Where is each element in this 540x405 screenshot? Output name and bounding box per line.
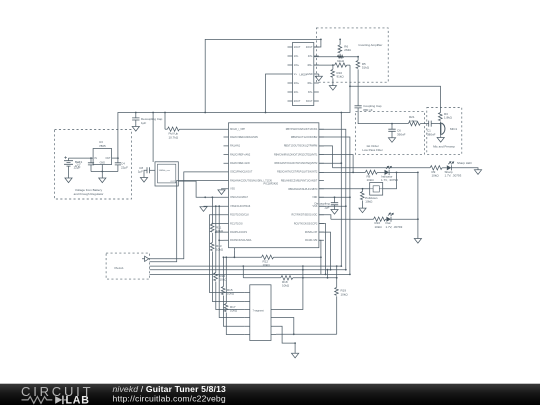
capacitor Decoupling Cap 1uF xyxy=(132,113,163,127)
wire VDD row with decoupling xyxy=(319,196,350,198)
svg-text:10kΩ: 10kΩ xyxy=(216,229,224,233)
wire x=302 link xyxy=(302,266,304,278)
svg-text:RB6/PGC/T1LOOK/KBI2: RB6/PGC/T1LOOK/KBI2 xyxy=(291,136,318,139)
svg-text:3IN+: 3IN+ xyxy=(307,82,313,85)
wire RC7 to flat row xyxy=(319,215,331,219)
svg-text:OUT: OUT xyxy=(170,181,175,183)
wire staircase V6 with resistor R17 xyxy=(224,257,245,334)
wire 7seg pin to ground xyxy=(276,326,295,353)
wire bus link at x=327 xyxy=(327,270,329,278)
resistor Pulldown 10k xyxy=(361,188,378,208)
svg-text:RB2/CANTX/CST/P1P/1LKTSIX/INT2: RB2/CANTX/CST/P1P/1LKTSIX/INT2 xyxy=(277,171,318,174)
wire Flat LED row xyxy=(331,218,374,220)
svg-text:5.6kΩ: 5.6kΩ xyxy=(409,119,418,123)
svg-text:Piezo1: Piezo1 xyxy=(115,266,125,270)
dashed box Voltage from Battery and through Regulator xyxy=(55,130,132,200)
wire 7seg bottom row xyxy=(276,333,337,335)
ground under C6 xyxy=(388,138,395,143)
wire piezo pin4 bus xyxy=(150,269,346,271)
svg-text:RB5/T1OOUT/SCK/LQTPWRM: RB5/T1OOUT/SCK/LQTPWRM xyxy=(284,145,317,148)
ground under C8 xyxy=(140,178,147,183)
wire oscillator supply drop xyxy=(152,113,154,163)
wire staircase V2 with resistors xyxy=(210,196,244,301)
wire RC1 route down xyxy=(319,224,326,275)
wire MCU bottom stub xyxy=(233,251,235,258)
resistor R3 1.8k xyxy=(439,112,453,124)
ground under regulator xyxy=(99,178,106,183)
svg-text:1.8kΩ: 1.8kΩ xyxy=(444,116,453,120)
svg-text:380nF: 380nF xyxy=(427,132,436,136)
wire bus vertical C from RB6 xyxy=(319,137,350,274)
wire Indicator LED row xyxy=(319,171,365,173)
led Indicator xyxy=(381,166,418,182)
ground under pulldown xyxy=(359,208,366,213)
op-amp U1 LM324 package xyxy=(288,43,319,106)
svg-text:Low Pass Filter: Low Pass Filter xyxy=(362,148,383,152)
svg-text:RB7/PGD7/AN/KLI3/T13CKI4: RB7/PGD7/AN/KLI3/T13CKI4 xyxy=(286,128,318,131)
svg-text:RA2/CVREF+/AN2: RA2/CVREF+/AN2 xyxy=(230,153,251,156)
svg-text:OSC2/RA6/CLKOUT: OSC2/RA6/CLKOUT xyxy=(230,171,253,174)
ground under mic xyxy=(437,135,444,142)
wire Sharp LED row xyxy=(333,167,431,169)
wire LED cathode drop xyxy=(417,172,419,238)
svg-text:MIC1: MIC1 xyxy=(450,127,457,131)
ground at op-amp GND pin xyxy=(315,74,322,81)
node junction C3 top xyxy=(90,157,92,159)
wire battery to regulator input xyxy=(69,157,94,159)
svg-text:RC3/SCK/SCL/SDA: RC3/SCK/SCL/SDA xyxy=(230,239,252,242)
svg-text:10kΩ: 10kΩ xyxy=(432,174,440,178)
wire non-inverting row xyxy=(314,64,333,66)
wire staircase V3 with resistor R14 xyxy=(214,205,245,309)
node rail junctions xyxy=(135,112,137,114)
wire piezo pin1 to MCU RA4 xyxy=(150,172,224,259)
ground 7segment common xyxy=(292,353,299,358)
svg-text:LM324: LM324 xyxy=(300,73,308,76)
resistor R6 2M (feedback) xyxy=(338,39,351,56)
capacitor Coupling Cap 880nF xyxy=(355,104,382,112)
svg-text:RC7/RX/DT/SDO1/UOC: RC7/RX/DT/SDO1/UOC xyxy=(292,214,318,217)
microcontroller U4 PIC18F2420 xyxy=(224,123,324,251)
svg-text:GND: GND xyxy=(307,73,313,76)
wire bus vertical B from RB7 xyxy=(319,129,346,270)
svg-text:10kΩ: 10kΩ xyxy=(216,248,224,252)
wire cap bottoms to regulator gnd xyxy=(91,165,118,179)
svg-text:RB3/CANTX/CLDK/T1P/1SICTEQVMT2: RB3/CANTX/CLDK/T1P/1SICTEQVMT2 xyxy=(275,162,318,165)
svg-text:880 nF: 880 nF xyxy=(363,108,373,112)
wire piezo pin5 bus xyxy=(150,273,350,275)
dashed box Piezo1 xyxy=(106,253,150,279)
svg-text:VDD: VDD xyxy=(312,196,317,199)
svg-text:MCLR_/_VPP: MCLR_/_VPP xyxy=(230,128,245,131)
ground under LED drop xyxy=(414,239,421,244)
wire 7seg pin to bottom row xyxy=(276,318,294,335)
voltage regulator U3 7805 xyxy=(93,140,112,165)
svg-text:OUT: OUT xyxy=(105,157,111,160)
svg-text:7-segment: 7-segment xyxy=(253,310,265,313)
wire RC2 route down xyxy=(319,232,331,270)
svg-text:2MΩ: 2MΩ xyxy=(344,48,351,52)
svg-text:22µF: 22µF xyxy=(121,165,128,169)
wire feedback run to left column xyxy=(205,39,321,112)
svg-text:RC2/P1A/CCP1: RC2/P1A/CCP1 xyxy=(230,231,248,234)
wire piezo pin2 to MCU RA5 xyxy=(150,181,224,262)
svg-text:1µF: 1µF xyxy=(138,170,143,174)
ground under decoupling cap xyxy=(132,127,139,132)
svg-text:GND: GND xyxy=(100,161,106,164)
resistor R12 10k xyxy=(262,255,274,267)
svg-text:RB4/CANRX/LDKIO/T1P/1DCTEQVMT1: RB4/CANRX/LDKIO/T1P/1DCTEQVMT1 xyxy=(274,153,318,156)
svg-text:10kΩ: 10kΩ xyxy=(367,178,375,182)
wire RB3 tap xyxy=(319,162,341,164)
footer bar xyxy=(0,384,540,405)
svg-text:RA0/CVREF/AN0/ULPWU: RA0/CVREF/AN0/ULPWU xyxy=(230,136,258,139)
svg-text:91kΩ: 91kΩ xyxy=(337,75,345,79)
svg-text:10.7kΩ: 10.7kΩ xyxy=(169,136,179,140)
dashed box Inverting Amplifier xyxy=(316,28,388,82)
svg-text:VSS: VSS xyxy=(230,188,235,191)
svg-text:10kΩ: 10kΩ xyxy=(230,309,238,313)
svg-text:2IN+: 2IN+ xyxy=(294,82,300,85)
svg-text:16MHz_osc: 16MHz_osc xyxy=(159,170,171,172)
led Sharp xyxy=(445,161,473,178)
svg-text:10kΩ: 10kΩ xyxy=(282,284,290,288)
svg-text:2IN-: 2IN- xyxy=(294,91,299,94)
microphone MIC1 xyxy=(431,123,457,135)
piezo output symbol xyxy=(142,256,149,261)
ground at MCU VSS2 left xyxy=(200,206,224,211)
resistor R16 10k xyxy=(374,217,387,229)
led Flat xyxy=(386,213,418,229)
svg-text:1.7V, .30793: 1.7V, .30793 xyxy=(381,178,398,182)
ground under battery xyxy=(65,172,72,183)
resistor Pull Up 10.7k xyxy=(165,113,224,140)
7-segment display DS1 xyxy=(245,285,276,341)
svg-text:1.7V, .30793: 1.7V, .30793 xyxy=(386,225,403,229)
svg-text:51kΩ: 51kΩ xyxy=(362,66,370,70)
wire bus vertical A from rail xyxy=(340,113,342,267)
svg-text:1IN+: 1IN+ xyxy=(294,64,300,67)
svg-text:10kΩ: 10kΩ xyxy=(227,292,235,296)
capacitor C6 390nF xyxy=(388,124,405,138)
wire VCC rail xyxy=(118,86,350,158)
svg-text:RC1/T1OSI: RC1/T1OSI xyxy=(230,222,243,225)
svg-text:390nF: 390nF xyxy=(397,132,406,136)
wire R4 output down to bias node xyxy=(349,65,351,86)
oscillator U2 16MHz module xyxy=(155,162,178,186)
svg-text:RC4/D-/VM: RC4/D-/VM xyxy=(305,239,317,242)
resistor R19 10k vertical xyxy=(335,266,349,334)
svg-text:1µF: 1µF xyxy=(141,121,146,125)
svg-text:http://circuitlab.com/c22vebg: http://circuitlab.com/c22vebg xyxy=(113,393,226,403)
svg-text:RA3/CVREF-/AN3: RA3/CVREF-/AN3 xyxy=(230,162,250,165)
svg-text:10kΩ: 10kΩ xyxy=(365,200,373,204)
svg-text:RB0/AN10/KNLPL/FLSBT0: RB0/AN10/KNLPL/FLSBT0 xyxy=(288,188,318,191)
ground at MCU VSS left xyxy=(218,189,225,195)
wire RB4 drop to indicator row xyxy=(319,155,353,173)
svg-text:2OUT: 2OUT xyxy=(294,100,301,103)
capacitor C3 xyxy=(74,158,95,171)
svg-text:LAB: LAB xyxy=(66,395,90,405)
wire top row y=277 xyxy=(243,277,336,279)
wire mic bias row xyxy=(350,86,441,112)
resistor R5 51k xyxy=(356,57,370,106)
resistor R10 91k to ground xyxy=(331,65,344,86)
svg-text:10kΩ: 10kΩ xyxy=(263,263,271,267)
wire RB5 to Sharp LED row xyxy=(319,146,333,168)
svg-text:1.7V, .30793: 1.7V, .30793 xyxy=(445,174,462,178)
svg-text:RC5/D+/VP: RC5/D+/VP xyxy=(305,231,318,234)
wire RC3 route down xyxy=(319,240,321,274)
wire VSS row tap xyxy=(319,205,346,207)
svg-text:and through Regulator: and through Regulator xyxy=(74,192,104,196)
wire piezo pin3 bus xyxy=(150,265,342,267)
svg-text:4IN+: 4IN+ xyxy=(307,64,313,67)
ground under R10 xyxy=(329,86,336,91)
resistor R8 10k xyxy=(365,170,384,182)
resistor R18 10k xyxy=(281,276,293,288)
ground under decoupling 2 xyxy=(331,210,338,215)
svg-text:Sharp LED: Sharp LED xyxy=(457,161,473,165)
svg-text:4IN-: 4IN- xyxy=(308,55,313,58)
svg-text:RA1/AN1: RA1/AN1 xyxy=(230,145,241,148)
svg-text:V+: V+ xyxy=(294,73,298,76)
resistor R9 10k xyxy=(430,166,447,178)
svg-text:10kΩ: 10kΩ xyxy=(341,292,349,296)
svg-text:PIC18F2420: PIC18F2420 xyxy=(264,182,279,186)
svg-text:1OUT: 1OUT xyxy=(294,46,301,49)
resistor R21 5.6k xyxy=(408,115,429,126)
svg-text:Mic and Preamp: Mic and Preamp xyxy=(433,145,455,149)
svg-text:4OUT: 4OUT xyxy=(306,46,313,49)
ground after Sharp LED xyxy=(451,168,481,175)
svg-text:RB1/HINDCZ/VBLP/INT1/CANSIT: RB1/HINDCZ/VBLP/INT1/CANSIT xyxy=(281,180,318,183)
wire coupling cap into filter xyxy=(358,108,408,124)
svg-text:10kΩ: 10kΩ xyxy=(375,225,383,229)
svg-text:3IN-: 3IN- xyxy=(308,91,313,94)
wire oscillator OUT to MCU OSC1 xyxy=(179,181,224,197)
wire 7seg pin a up to row xyxy=(276,278,303,310)
svg-text:RC0/T1OSO/CLK: RC0/T1OSO/CLK xyxy=(230,214,249,217)
node junction C4 top xyxy=(117,157,119,159)
wire staircase V4 xyxy=(219,206,245,317)
battery BAT1 xyxy=(64,156,83,172)
svg-text:1IN-: 1IN- xyxy=(294,55,299,58)
dashed box 1st Order Low Pass Filter xyxy=(355,112,424,155)
capacitor C4 xyxy=(115,158,128,171)
wire regulator output xyxy=(112,157,118,159)
svg-text:OSC1/CLKI/RA7: OSC1/CLKI/RA7 xyxy=(230,196,248,199)
capacitor C1 380nF xyxy=(427,121,436,137)
capacitor C8 1uF xyxy=(138,166,155,178)
wire R12 row xyxy=(223,256,321,258)
resistor R4 91k horizontal xyxy=(333,63,350,67)
logo resistor + diode strip xyxy=(22,396,67,405)
pushbutton SW1 xyxy=(319,172,398,196)
svg-text:IN: IN xyxy=(95,157,98,160)
svg-text:7805: 7805 xyxy=(99,144,106,148)
wire staircase V5 with resistor R15 xyxy=(221,257,244,326)
resistor R7 91k (compressed) xyxy=(338,55,344,58)
svg-text:Inverting Amplifier: Inverting Amplifier xyxy=(359,43,383,47)
svg-text:22µF: 22µF xyxy=(74,165,81,169)
svg-text:VSS2/CLKO/TRA6: VSS2/CLKO/TRA6 xyxy=(230,205,251,208)
svg-text:RC6/TX/CK/SS/CCP2: RC6/TX/CK/SS/CCP2 xyxy=(294,222,318,225)
capacitor Decoupling 1uF xyxy=(314,197,338,209)
wire staircase V1 xyxy=(210,215,245,293)
wire op-amp V+ to rail xyxy=(266,74,288,113)
svg-text:3OUT: 3OUT xyxy=(306,100,313,103)
dashed box Mic and Preamp xyxy=(427,108,462,155)
wire inverting input row xyxy=(314,56,358,58)
